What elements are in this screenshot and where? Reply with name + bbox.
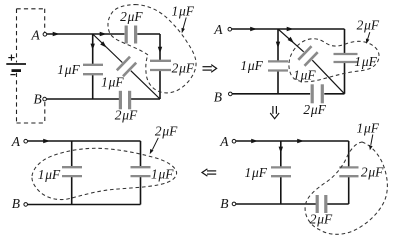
capacitor 1uF left branch (circuit 2)	[268, 61, 288, 70]
symbol: implies left arrow	[202, 169, 216, 176]
wire: left branch vertical (circuit 3)	[71, 141, 73, 205]
wire: left branch vertical (circuit 2)	[277, 29, 279, 94]
current arrow on diagonal	[100, 41, 106, 47]
annotation arrow (circuit 1)	[183, 18, 186, 29]
annotation arrow (circuit 2)	[367, 32, 370, 40]
dashed grouping loop around series 2uF+2uF (circuit 1)	[108, 5, 196, 93]
wire A to bridge top (circuit 1)	[47, 33, 160, 35]
node A (circuit 4)	[232, 139, 236, 143]
capacitor 1uF right branch (circuit 3)	[131, 167, 151, 176]
svg-text:B: B	[34, 91, 42, 106]
svg-text:A: A	[11, 134, 21, 149]
current arrow on diagonal (circuit 2)	[288, 37, 294, 43]
svg-text:1μF: 1μF	[57, 62, 80, 77]
current arrow on top wire (circuit 4)	[297, 139, 304, 143]
current arrow on left branch	[91, 44, 95, 51]
current arrow on top wire	[287, 27, 294, 31]
battery V1	[6, 55, 26, 75]
capacitor 2uF right branch (circuit 4)	[339, 167, 358, 176]
svg-text:1μF: 1μF	[354, 54, 377, 69]
annotation arrow (circuit 3)	[152, 138, 158, 150]
dashed grouping loop around parallel 1uF+1uF (circuit 2)	[289, 39, 379, 82]
capacitor 2uF bottom branch (circuit 2)	[312, 84, 322, 103]
dashed grouping loop around parallel 1uF+1uF (circuit 3)	[32, 148, 177, 199]
current arrow on middle branch (circuit 4)	[279, 147, 283, 154]
svg-text:B: B	[12, 196, 20, 211]
node B (circuit 4)	[232, 202, 236, 206]
svg-text:A: A	[31, 27, 41, 42]
capacitor 1uF left branch (circuit 1)	[83, 65, 103, 74]
wire: dashed battery loop	[17, 9, 46, 123]
wire: middle branch vertical (circuit 4)	[280, 141, 282, 204]
svg-text:2μF: 2μF	[172, 61, 195, 76]
capacitor 1uF bridge diagonal (circuit 2)	[298, 46, 317, 66]
svg-text:B: B	[214, 89, 222, 104]
current arrow on A wire (circuit 3)	[43, 139, 50, 143]
capacitor 2uF right branch (circuit 1)	[150, 61, 171, 70]
wire: diagonal bridge (circuit 1)	[93, 34, 160, 99]
wire A to network top (circuit 3)	[28, 140, 141, 142]
svg-text:1μF: 1μF	[172, 4, 195, 19]
capacitor 1uF middle branch (circuit 4)	[271, 167, 291, 176]
capacitor 1uF right branch (circuit 2)	[334, 54, 358, 62]
wire: bottom rail B (circuit 4)	[236, 203, 349, 205]
capacitor 1uF bridge diagonal (circuit 1)	[117, 57, 136, 77]
svg-text:B: B	[220, 196, 228, 211]
wire: left branch vertical (circuit 1)	[92, 34, 94, 99]
current arrow on A wire	[53, 32, 60, 36]
svg-text:A: A	[219, 134, 229, 149]
current arrow on top wire	[100, 32, 107, 36]
capacitor 2uF bottom branch (circuit 4)	[317, 195, 326, 213]
wire: bottom rail B (circuit 3)	[28, 204, 141, 206]
svg-text:A: A	[213, 22, 223, 37]
node A (circuit 3)	[24, 139, 28, 143]
wire A to network top (circuit 2)	[232, 28, 345, 30]
svg-text:1μF: 1μF	[38, 167, 61, 182]
wire: diagonal bridge (circuit 2)	[278, 29, 345, 94]
current arrow on left branch	[276, 42, 280, 49]
node B (circuit 3)	[24, 203, 28, 207]
svg-text:1μF: 1μF	[357, 120, 380, 135]
current arrow on A wire (circuit 4)	[251, 139, 258, 143]
svg-text:2μF: 2μF	[155, 124, 178, 139]
annotation arrow (circuit 4)	[371, 135, 373, 145]
svg-text:1μF: 1μF	[245, 165, 268, 180]
wire: bottom rail B (circuit 2)	[232, 93, 344, 95]
wire: right branch vertical (circuit 3)	[140, 141, 142, 205]
wire: bottom rail B (circuit 1)	[47, 98, 160, 100]
node B (circuit 2)	[229, 92, 233, 96]
svg-text:2μF: 2μF	[357, 18, 380, 33]
svg-text:1μF: 1μF	[101, 75, 124, 90]
capacitor 2uF top branch (circuit 1)	[126, 26, 135, 44]
wire: right branch vertical (circuit 2)	[344, 29, 346, 94]
capacitor 1uF left branch (circuit 3)	[62, 167, 82, 176]
svg-text:1μF: 1μF	[151, 166, 174, 181]
svg-text:1μF: 1μF	[240, 58, 263, 73]
wire: right branch vertical (circuit 1)	[159, 34, 161, 99]
symbol: implies down arrow	[270, 106, 279, 119]
svg-text:2μF: 2μF	[115, 107, 138, 122]
symbol: implies right arrow	[203, 65, 217, 73]
wire A to network top (circuit 4)	[236, 140, 349, 142]
node B (circuit 1)	[43, 97, 47, 101]
node A (circuit 1)	[43, 33, 47, 37]
current arrow on A wire	[250, 27, 257, 31]
svg-text:2μF: 2μF	[310, 212, 333, 227]
node A (circuit 2)	[228, 27, 232, 31]
svg-text:2μF: 2μF	[303, 102, 326, 117]
svg-text:2μF: 2μF	[361, 164, 384, 179]
current arrow on right branch	[158, 47, 162, 54]
dashed grouping loop around series 2uF+2uF (circuit 4)	[305, 142, 387, 234]
svg-text:2μF: 2μF	[120, 9, 143, 24]
wire: right branch vertical (circuit 4)	[348, 141, 350, 204]
svg-text:1μF: 1μF	[293, 68, 316, 83]
capacitor 2uF bottom branch (circuit 1)	[120, 91, 129, 110]
